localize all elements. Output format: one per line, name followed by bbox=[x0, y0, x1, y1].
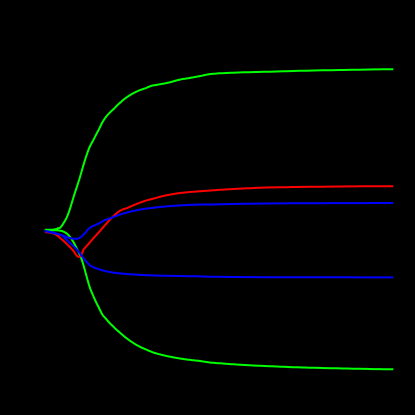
blue curve lower branch bbox=[45, 231, 394, 277]
blue curve upper branch bbox=[45, 203, 394, 239]
red curve bbox=[45, 186, 394, 257]
green curve lower branch bbox=[45, 230, 394, 369]
green curve upper branch bbox=[45, 69, 394, 230]
